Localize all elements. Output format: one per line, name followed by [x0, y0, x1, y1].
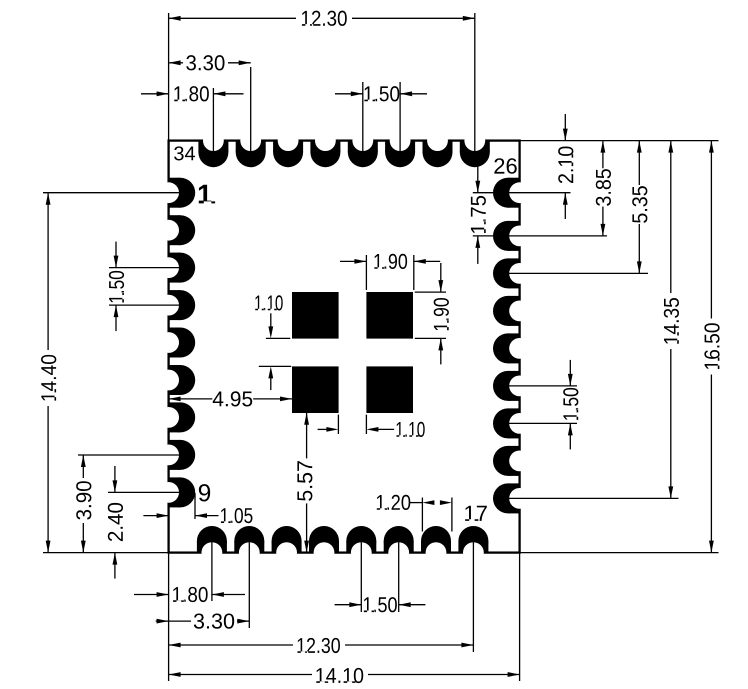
- extension line pin 10: [211, 542, 213, 601]
- pad pin 15 (bottom edge): [384, 526, 414, 563]
- extension line thermal pad bottom-right: [365, 415, 367, 434]
- pin label 26: [494, 158, 516, 174]
- extension line thermal gap upper: [266, 337, 290, 339]
- dimension 1.75 pin pitch: [477, 165, 479, 193]
- dimension 1.50 bottom: [335, 604, 362, 606]
- extension line pin 13: [398, 542, 400, 612]
- extension line pin 21: [509, 385, 577, 387]
- center thermal pad bottom-left: [292, 366, 339, 413]
- pad pin 18 (right edge): [493, 483, 530, 513]
- extension line pin 26: [473, 192, 493, 194]
- dimension 14.10 bottom: [169, 674, 312, 676]
- pin label 9: [199, 484, 210, 501]
- dimension 14.35 right: [670, 141, 672, 293]
- extension line thermal pad right top: [415, 291, 446, 293]
- extension line thermal pad right bottom: [415, 337, 446, 339]
- extension line pad diameter left: [421, 498, 423, 532]
- extension line pin 20: [509, 422, 577, 424]
- pin label 17: [465, 506, 487, 521]
- pin label 34: [174, 146, 195, 160]
- extension line pin 29: [399, 82, 401, 151]
- dimension 1.05 pad offset: [143, 515, 168, 517]
- center thermal pad top-left: [292, 292, 339, 339]
- extension line thermal gap lower: [259, 365, 291, 367]
- pad pin 23 (right edge): [493, 296, 530, 326]
- extension line pin 3: [109, 267, 179, 269]
- extension line thermal pad top-left edge: [365, 255, 367, 290]
- pad pin 5 (left edge): [158, 328, 195, 358]
- extension line bottom edge rightward: [520, 552, 719, 554]
- pad pin 26 (right edge): [493, 178, 530, 208]
- extension line pin 33: [250, 67, 252, 151]
- dimension 1.90 thermal pad width: [340, 260, 366, 262]
- extension line pin 9: [108, 491, 179, 493]
- extension line pin 30: [362, 82, 364, 151]
- dimension 14.40 left: [47, 193, 49, 350]
- extension line pad diameter right: [451, 498, 453, 532]
- pad pin 33 (top edge): [236, 130, 266, 167]
- pad pin 13 (bottom edge): [309, 526, 339, 563]
- module body outline: [169, 141, 520, 553]
- pin label 1: [199, 185, 215, 204]
- pad pin 11 (bottom edge): [234, 526, 264, 563]
- dimension 1.90 thermal pad height: [440, 263, 442, 292]
- extension line right edge downward: [519, 553, 521, 681]
- extension line bottom edge leftward: [43, 552, 169, 554]
- pad pin 6 (left edge): [158, 365, 195, 395]
- dimension 5.35 right: [638, 141, 640, 185]
- extension line left edge upward: [168, 13, 170, 141]
- pad pin 34 (top edge): [198, 130, 228, 167]
- extension line left edge downward: [168, 553, 170, 681]
- dimension 3.85 right: [602, 141, 604, 169]
- pad pin 22 (right edge): [493, 333, 530, 363]
- extension line pin 1: [43, 192, 179, 194]
- dimension 2.40 left: [114, 466, 116, 492]
- extension line pin 17 bottom: [472, 542, 474, 652]
- extension line pin 14: [360, 542, 362, 612]
- dimension 12.30 bottom: [169, 644, 293, 646]
- pad pin 31 (top edge): [310, 130, 340, 167]
- extension line pin 8: [78, 454, 179, 456]
- center thermal pad bottom-right: [366, 366, 413, 413]
- pad pin 2 (left edge): [158, 215, 195, 245]
- pad pin 10 (bottom edge): [197, 526, 227, 563]
- pad pin 4 (left edge): [158, 290, 195, 320]
- dimension 2.10 right: [564, 114, 566, 141]
- pad pin 16 (bottom edge): [421, 526, 451, 563]
- dimension 1.10 thermal gap vertical: [255, 295, 282, 310]
- pad pin 25 (right edge): [493, 221, 530, 251]
- pad pin 30 (top edge): [348, 130, 378, 167]
- pad pin 29 (top edge): [385, 130, 415, 167]
- extension line pin 11: [248, 542, 250, 628]
- extension line pin 24: [509, 272, 648, 274]
- extension line thermal pad bottom-left: [337, 415, 339, 434]
- dimension 16.50 right: [710, 141, 712, 319]
- pad pin 27 (top edge): [460, 130, 490, 167]
- pad pin 20 (right edge): [493, 408, 530, 438]
- pad pin 32 (top edge): [273, 130, 303, 167]
- dimension 3.90 left: [82, 455, 84, 478]
- extension line pin 18: [509, 497, 679, 499]
- dimension 1.50 top: [335, 93, 363, 95]
- dimension 1.10 thermal gap horizontal: [318, 428, 327, 430]
- pad pin 3 (left edge): [158, 253, 195, 283]
- pad pin 17 (bottom edge): [458, 526, 488, 563]
- center thermal pad top-right: [366, 292, 413, 339]
- dimension 1.50 right: [569, 360, 571, 386]
- extension line top edge rightward: [520, 140, 719, 142]
- pad pin 8 (left edge): [158, 440, 195, 470]
- pad pin 1 (left edge): [158, 178, 195, 208]
- dimension 3.30 bottom: [156, 620, 169, 622]
- dimension 5.57 thermal pad to edge: [306, 413, 308, 459]
- dimension 1.20 pad diameter: [410, 502, 422, 504]
- pad pin 12 (bottom edge): [272, 526, 302, 563]
- extension line pin 34: [212, 88, 214, 151]
- pad pin 14 (bottom edge): [346, 526, 376, 563]
- dimension 3.30 top: [169, 62, 183, 64]
- extension line pin 27: [474, 13, 476, 151]
- pad pin 21 (right edge): [493, 371, 530, 401]
- extension line pad protrusion: [194, 493, 196, 519]
- pad pin 24 (right edge): [493, 258, 530, 288]
- extension line thermal pad top-right edge: [413, 255, 415, 290]
- dimension 1.80 top: [141, 93, 169, 95]
- dimension 1.50 left: [115, 242, 117, 268]
- pad pin 28 (top edge): [423, 130, 453, 167]
- dimension 4.95 thermal pad position: [169, 398, 213, 400]
- pad pin 19 (right edge): [493, 446, 530, 476]
- dimension 12.30 top: [169, 17, 296, 19]
- extension line pin 25: [473, 235, 493, 237]
- pad pin 9 (left edge): [158, 477, 195, 507]
- pad pin 7 (left edge): [158, 402, 195, 432]
- extension line pin 4: [109, 304, 179, 306]
- dimension 1.80 bottom: [134, 594, 169, 596]
